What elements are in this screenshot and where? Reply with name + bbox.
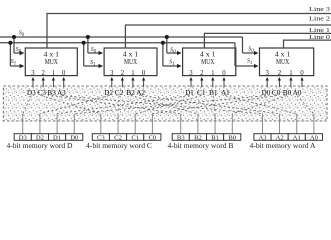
wire input 2 of U3 from C1	[201, 78, 203, 88]
node label A0 under U4	[293, 88, 302, 97]
wire S1 tap to U3	[163, 43, 181, 66]
svg-text:D0: D0	[262, 88, 271, 97]
wire dashed path D2 cell to U2 input 3	[40, 96, 109, 114]
svg-text:0: 0	[300, 70, 304, 77]
svg-text:0: 0	[142, 70, 146, 77]
svg-text:D3: D3	[19, 135, 28, 142]
junction dot S0 bus / U1	[12, 35, 16, 39]
wire stub from cell D1	[56, 114, 58, 135]
mux U2 4x1 MUX body	[104, 48, 157, 77]
wire input 2 of U4 from C0	[278, 78, 280, 88]
wire stub from cell C2	[117, 114, 119, 135]
node label B0 under U4	[283, 88, 292, 97]
svg-text:MUX: MUX	[201, 58, 215, 66]
wire dashed path B3 cell to U1 input 1	[52, 96, 181, 114]
wire stub from cell D3	[22, 114, 24, 135]
wire input 0 of U1 from A3	[63, 78, 65, 88]
wire stub from cell C3	[100, 114, 102, 135]
label caption word A	[250, 143, 316, 150]
junction dot S0 bus / U2	[86, 35, 90, 39]
wire stub from cell B0	[231, 114, 233, 135]
wire output of U3 to Line 1	[204, 33, 331, 48]
node label B2 under U2	[126, 88, 135, 97]
wire dashed path C2 cell to U2 input 2	[117, 96, 120, 114]
node label A3 under U1	[57, 88, 66, 97]
svg-text:A3: A3	[258, 135, 267, 142]
wire stub from cell A1	[296, 114, 298, 135]
svg-text:2: 2	[200, 70, 204, 77]
svg-text:C1: C1	[131, 135, 139, 142]
svg-text:4-bit memory word D: 4-bit memory word D	[7, 143, 73, 150]
wire output of U4 to Line 0	[283, 40, 331, 48]
wire dashed path D3 cell to U1 input 3	[23, 96, 32, 114]
wire stub from cell B3	[180, 114, 182, 135]
svg-text:3: 3	[110, 70, 114, 77]
wire input 3 of U3 from D1	[190, 78, 192, 88]
pin label S0 of U1	[16, 47, 22, 54]
wire input 2 of U2 from C2	[121, 78, 123, 88]
wire stub from cell A0	[313, 114, 315, 135]
node label D2 under U2	[104, 88, 113, 97]
pin label S0 of U4	[248, 47, 254, 54]
node label B1 under U3	[209, 88, 218, 97]
wire input 1 of U2 from B2	[132, 78, 134, 88]
node label C2 under U2	[115, 88, 124, 97]
wire dashed path C0 cell to U4 input 2	[152, 96, 276, 114]
svg-text:2: 2	[41, 70, 45, 77]
node label Line 0	[309, 34, 330, 41]
wire stub from cell D0	[73, 114, 75, 135]
svg-text:2: 2	[278, 70, 282, 77]
wire dashed path C3 cell to U1 input 2	[42, 96, 101, 114]
svg-text:0: 0	[222, 70, 226, 77]
wire dashed path B1 cell to U3 input 1	[213, 96, 215, 114]
node label A1 under U3	[221, 88, 230, 97]
wire output of U1 to Line 3	[47, 14, 331, 49]
wire stub from cell A2	[279, 114, 281, 135]
node label C1 under U3	[197, 88, 206, 97]
net S0 bus wire	[0, 36, 243, 38]
wire S0 tap to U3	[167, 37, 181, 53]
wire dashed path C1 cell to U3 input 2	[135, 96, 201, 114]
net S1 bus wire	[0, 42, 235, 44]
svg-text:Line 0: Line 0	[309, 34, 330, 41]
pin label S1 of U4	[247, 59, 252, 66]
wire S1 tap to U4	[235, 43, 258, 66]
wire stub from cell D2	[39, 114, 41, 135]
wire S1 tap to U2	[84, 43, 103, 66]
wire input 1 of U1 from B3	[52, 78, 54, 88]
svg-text:1: 1	[211, 70, 214, 77]
register 4-bit memory word B	[172, 134, 241, 142]
register 4-bit memory word A	[254, 134, 323, 142]
svg-text:3: 3	[31, 70, 35, 77]
wire dashed path A0 cell to U4 input 0	[297, 96, 314, 114]
svg-text:1: 1	[52, 70, 55, 77]
memory array region (stippled box)	[3, 86, 327, 121]
svg-text:C0: C0	[148, 135, 156, 142]
svg-text:D1: D1	[185, 88, 194, 97]
wire S1 tap to U1	[10, 43, 23, 66]
wire dashed path B2 cell to U2 input 1	[131, 96, 198, 114]
wire dashed path A1 cell to U3 input 0	[225, 96, 296, 114]
wire S0 tap to U1	[14, 37, 24, 53]
svg-text:1: 1	[289, 70, 292, 77]
svg-text:3: 3	[189, 70, 193, 77]
svg-text:B1: B1	[211, 135, 219, 142]
register 4-bit memory word D	[14, 134, 83, 142]
svg-text:D0: D0	[70, 135, 79, 142]
wire stub from cell B2	[197, 114, 199, 135]
svg-text:D3: D3	[27, 88, 36, 97]
label caption word D	[7, 143, 73, 150]
svg-text:4-bit memory word A: 4-bit memory word A	[250, 143, 316, 150]
svg-text:MUX: MUX	[124, 58, 138, 66]
wire input 1 of U4 from B0	[290, 78, 292, 88]
node label A2 under U2	[136, 88, 145, 97]
label caption word B	[168, 143, 235, 150]
node label D1 under U3	[185, 88, 194, 97]
wire S0 tap to U2	[88, 37, 102, 53]
wire stub from cell B1	[214, 114, 216, 135]
pin label S1 of U1	[11, 59, 16, 66]
svg-text:MUX: MUX	[276, 58, 290, 66]
wire input 0 of U3 from A1	[223, 78, 225, 88]
svg-text:A1: A1	[293, 135, 301, 142]
svg-text:MUX: MUX	[45, 58, 59, 66]
mux U4 4x1 MUX body	[260, 48, 314, 77]
svg-text:Line 2: Line 2	[309, 16, 330, 23]
svg-text:D2: D2	[104, 88, 113, 97]
wire input 0 of U2 from A2	[143, 78, 145, 88]
junction dot S1 bus / U1	[8, 41, 12, 45]
mux U1 4x1 MUX body	[25, 48, 77, 77]
svg-text:3: 3	[265, 70, 269, 77]
svg-text:A2: A2	[276, 135, 284, 142]
node label D0 under U4	[262, 88, 271, 97]
svg-text:B0: B0	[283, 88, 292, 97]
wire input 1 of U3 from B1	[212, 78, 214, 88]
svg-text:B2: B2	[194, 135, 202, 142]
svg-text:B3: B3	[177, 135, 185, 142]
wire S0 tap to U4	[243, 37, 258, 53]
svg-text:C1: C1	[197, 88, 206, 97]
svg-text:C2: C2	[114, 135, 122, 142]
node label Line 3	[309, 6, 330, 13]
wire dashed path D1 cell to U3 input 3	[57, 96, 189, 114]
pin label S1 of U3	[169, 60, 174, 67]
svg-text:Line 3: Line 3	[309, 6, 330, 13]
svg-text:C0: C0	[272, 88, 281, 97]
svg-text:4-bit memory word B: 4-bit memory word B	[168, 143, 235, 150]
wire input 0 of U4 from A0	[301, 78, 303, 88]
wire input 3 of U4 from D0	[266, 78, 268, 88]
svg-text:A0: A0	[310, 135, 319, 142]
wire dashed path B0 cell to U4 input 1	[232, 96, 287, 114]
node label C3 under U1	[37, 88, 46, 97]
node label Line 2	[309, 16, 330, 23]
node label B3 under U1	[47, 88, 56, 97]
svg-text:4-bit memory word C: 4-bit memory word C	[86, 143, 153, 150]
wire input 3 of U2 from D2	[111, 78, 113, 88]
wire dashed path A2 cell to U2 input 0	[141, 96, 280, 114]
node label C0 under U4	[272, 88, 281, 97]
node S0 bus label	[19, 31, 25, 38]
wire dashed path D0 cell to U4 input 3	[74, 96, 266, 114]
wire output of U2 to Line 2	[125, 25, 331, 48]
svg-text:1: 1	[131, 70, 134, 77]
junction dot S0 bus / U3	[165, 35, 169, 39]
svg-text:B0: B0	[228, 135, 236, 142]
wire stub from cell C0	[151, 114, 153, 135]
svg-text:D2: D2	[36, 135, 44, 142]
wire input 2 of U1 from C3	[42, 78, 44, 88]
pin label S0 of U2	[91, 47, 97, 54]
svg-text:C3: C3	[97, 135, 105, 142]
wire dashed path A3 cell to U1 input 0	[61, 96, 262, 114]
svg-text:2: 2	[121, 70, 125, 77]
svg-text:D1: D1	[53, 135, 61, 142]
register 4-bit memory word C	[92, 134, 161, 142]
mux U3 4x1 MUX body	[183, 48, 236, 77]
pin label S1 of U2	[90, 60, 95, 67]
node label Line 1	[309, 27, 330, 34]
wire stub from cell C1	[134, 114, 136, 135]
wire stub from cell A3	[261, 114, 263, 135]
pin label S0 of U3	[170, 48, 176, 55]
label caption word C	[86, 143, 153, 150]
wire input 3 of U1 from D3	[32, 78, 34, 88]
junction dot S1 bus / U2	[82, 41, 86, 45]
svg-text:0: 0	[62, 70, 66, 77]
node label D3 under U1	[27, 88, 36, 97]
junction dot S1 bus / U3	[161, 41, 165, 45]
